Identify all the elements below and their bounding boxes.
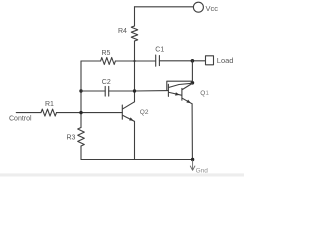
svg-text:C1: C1 (155, 47, 164, 54)
wire R5/C1 row (81, 60, 101, 62)
wire C1 right plate to load node (159, 60, 205, 62)
transistor Q1b base bar (181, 88, 183, 100)
power source Vcc terminal circle (193, 2, 203, 12)
transistor Q1b emitter arrow (186, 100, 191, 104)
transistor Q2 collector (123, 102, 135, 109)
resistor R4 (131, 26, 137, 41)
transistor Q1a base bar (167, 84, 169, 96)
wire base row to Q2 (57, 112, 123, 114)
svg-text:Q2: Q2 (140, 109, 149, 116)
transistor Q1a collector (169, 83, 192, 87)
node crossing R4 column / C1 row (133, 60, 135, 62)
svg-text:C2: C2 (102, 79, 111, 86)
svg-text:R1: R1 (45, 101, 54, 108)
load box (206, 56, 214, 65)
svg-text:R5: R5 (102, 50, 111, 57)
wire left column (80, 61, 82, 128)
capacitor C2 (105, 86, 109, 96)
wire top rail Vcc (135, 6, 194, 8)
wire R4 top lead (134, 7, 136, 26)
faint band near bottom (0, 173, 244, 176)
node bottom rail output corner (191, 158, 194, 161)
svg-text:R4: R4 (118, 28, 127, 35)
resistor R1 (41, 109, 57, 116)
wire C2 row left (81, 90, 105, 92)
svg-text:Gnd: Gnd (196, 167, 209, 174)
transistor Q1b emitter (182, 98, 192, 104)
ground arrow (190, 161, 195, 171)
wire Q1 emitter down to bottom rail (191, 104, 193, 160)
svg-text:Load: Load (217, 56, 234, 65)
node C2 row left junction (79, 89, 82, 92)
transistor Q1a emitter (169, 92, 181, 95)
node Q1 collector junction (191, 81, 195, 85)
resistor R5 (101, 58, 116, 65)
transistor Q1a emitter arrow (175, 92, 180, 95)
capacitor C1 (156, 55, 160, 66)
svg-text:Control: Control (9, 115, 32, 122)
svg-text:Vcc: Vcc (206, 4, 219, 13)
wire R4 column down to Q2 collector (134, 41, 136, 102)
svg-text:R3: R3 (67, 135, 76, 142)
wire control input lead (16, 112, 41, 114)
resistor R3 (78, 128, 85, 147)
transistor Q2 emitter (123, 115, 135, 121)
svg-text:Q1: Q1 (200, 90, 209, 97)
transistor Q2 emitter arrow (129, 117, 134, 120)
node base row / left column junction (79, 111, 82, 114)
wire C2 row right to Q1 base (109, 90, 169, 92)
wire R3 bottom lead (80, 146, 82, 160)
transistor Q1b collector (182, 83, 192, 89)
transistor Q2 base bar (121, 105, 123, 119)
node C1-load junction (191, 59, 195, 63)
wire row to C1 left plate (115, 60, 155, 62)
wire right column C1 node down to Q1 collector node (191, 61, 193, 83)
wire bottom rail (81, 159, 193, 161)
wire Q2 emitter down to rail (134, 121, 136, 159)
wire collector-base feedback (167, 81, 193, 90)
node C2 row / collector column junction (133, 89, 136, 92)
